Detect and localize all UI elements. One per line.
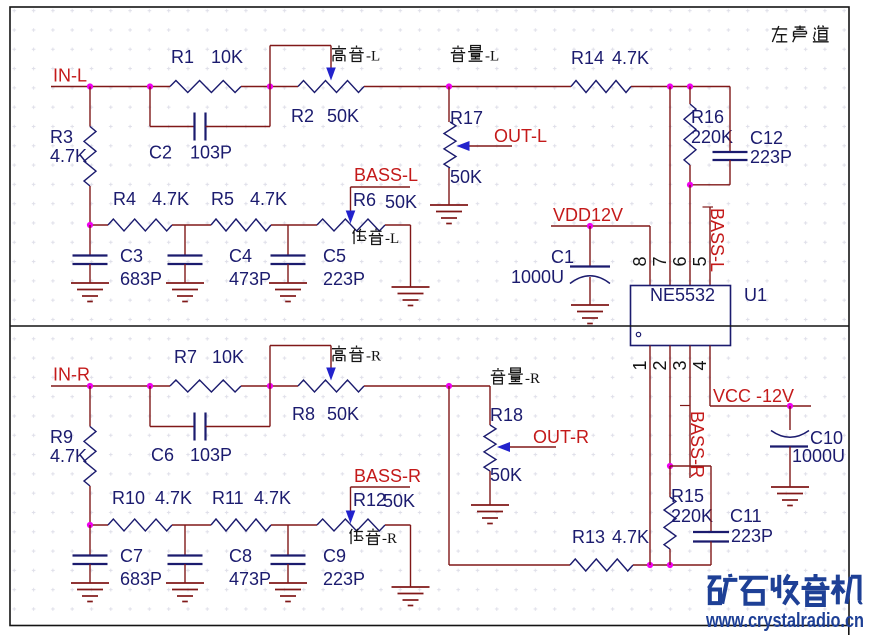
ground C5 [269, 283, 307, 302]
wire R4-R5 [172, 224, 211, 226]
svg-text:683P: 683P [120, 269, 162, 289]
svg-text:4.7K: 4.7K [612, 527, 649, 547]
svg-text:R14: R14 [571, 48, 604, 68]
svg-text:VCC -12V: VCC -12V [713, 386, 794, 406]
capacitor C3 [89, 225, 91, 255]
svg-text:C4: C4 [229, 246, 252, 266]
node VDD12V wire [551, 225, 650, 227]
svg-text:220K: 220K [671, 506, 713, 526]
capacitor C10 (polarized) [789, 406, 791, 430]
svg-text:8: 8 [630, 256, 650, 266]
capacitor C11 [670, 465, 711, 467]
wire bass row left [90, 224, 108, 226]
svg-text:BASS-R: BASS-R [687, 411, 707, 478]
ground C10 [771, 487, 809, 506]
node VCC-12V wire [709, 346, 711, 407]
pot R8 wiper arrow [326, 368, 336, 381]
capacitor C2 [149, 87, 151, 127]
wire R13 to C11 bottom [633, 564, 711, 566]
label left-channel (Chinese) 左声道 [772, 26, 787, 42]
svg-text:IN-R: IN-R [53, 365, 90, 385]
svg-text:C11: C11 [730, 506, 762, 526]
junction volume net [446, 83, 452, 89]
resistor R9 [89, 386, 91, 427]
wire pin5 stub BASS-L [709, 207, 711, 286]
ground R6 [392, 287, 430, 306]
ground C8 [166, 583, 204, 602]
resistor R5 [211, 219, 271, 231]
svg-text:50K: 50K [327, 106, 359, 126]
svg-text:R2: R2 [291, 106, 314, 126]
svg-text:R1: R1 [171, 47, 194, 67]
ground C3 [71, 283, 109, 302]
ground R18 [471, 505, 509, 524]
node BASS-R stub wire [351, 486, 411, 488]
svg-text:C5: C5 [323, 246, 346, 266]
svg-text:R8: R8 [292, 404, 315, 424]
svg-text:R6: R6 [353, 190, 376, 210]
pot R2 wiper arrow [326, 68, 336, 81]
resistor R1 [170, 81, 241, 93]
label bass-R (Chinese) [350, 529, 364, 544]
wire OUT-L [470, 145, 513, 147]
junction R16 top [687, 83, 693, 89]
wire R8 to R18 corner [364, 385, 490, 387]
svg-text:C6: C6 [151, 445, 174, 465]
net label tick pin3 [680, 405, 691, 407]
wire R10-R11 [172, 524, 211, 526]
resistor R4 [108, 219, 172, 231]
wire to ground R12 [410, 525, 412, 587]
resistor R11 [211, 519, 271, 531]
junction R16/C12 bottom (pin6) [687, 182, 693, 188]
wire to ground R6 [410, 225, 412, 287]
potentiometer R6 body [317, 219, 385, 231]
junction pin7 net [667, 83, 673, 89]
svg-text:683P: 683P [120, 569, 162, 589]
svg-text:C9: C9 [323, 546, 346, 566]
wire volume R down to R13 row [448, 386, 450, 565]
svg-text:IN-L: IN-L [53, 66, 87, 86]
wire pin2 down [669, 346, 671, 467]
wire R7 to R8 [241, 385, 298, 387]
svg-text:-L: -L [385, 231, 399, 247]
svg-text:4.7K: 4.7K [155, 488, 192, 508]
svg-text:C1: C1 [551, 247, 574, 267]
wire R11-R12 [271, 524, 317, 526]
resistor R3 [89, 87, 91, 127]
svg-text:103P: 103P [190, 445, 232, 465]
svg-text:4: 4 [690, 360, 710, 370]
potentiometer R17 volume [448, 87, 450, 123]
section divider line [10, 325, 849, 327]
wire pin3 stub BASS-R [689, 346, 691, 479]
wire R12 right [385, 524, 411, 526]
svg-text:6: 6 [670, 256, 690, 266]
resistor R15 [664, 497, 676, 549]
svg-text:C8: C8 [229, 546, 252, 566]
svg-text:OUT-L: OUT-L [494, 126, 547, 146]
ground C4 [166, 283, 204, 302]
svg-text:1000U: 1000U [511, 267, 564, 287]
potentiometer R2 body [298, 81, 364, 93]
ground C7 [71, 583, 109, 602]
pot R6 wiper arrow [346, 211, 356, 224]
pot R18 wiper arrow [497, 442, 510, 452]
pot R12 wiper arrow [346, 511, 356, 524]
junction R7 / C6 right / treble loop [267, 383, 273, 389]
U1 pin1 marker circle [636, 332, 640, 336]
svg-text:BASS-L: BASS-L [707, 208, 727, 272]
wire R14 to C12 corner [631, 86, 730, 88]
wire R5-R6 [271, 224, 317, 226]
capacitor C5 [287, 225, 289, 255]
label volume-R (Chinese) [491, 368, 505, 384]
watermark logo crystalradio (Chinese) [708, 574, 738, 604]
svg-text:4.7K: 4.7K [612, 48, 649, 68]
node BASS-L stub wire [351, 186, 411, 188]
svg-text:473P: 473P [229, 269, 271, 289]
svg-text:C2: C2 [149, 143, 172, 163]
junction volume net R [446, 383, 452, 389]
svg-text:223P: 223P [750, 147, 792, 167]
junction R15/C11 top (pin2) [667, 463, 673, 469]
svg-text:1: 1 [630, 360, 650, 370]
wire OUT-R [510, 446, 556, 448]
resistor R13 [570, 559, 633, 571]
svg-text:R7: R7 [174, 347, 197, 367]
svg-text:VDD12V: VDD12V [553, 205, 623, 225]
svg-text:-R: -R [382, 531, 397, 547]
svg-text:R17: R17 [450, 108, 483, 128]
resistor R14 [571, 81, 631, 93]
pot R17 wiper arrow [457, 141, 470, 151]
capacitor C8 [184, 525, 186, 555]
svg-text:5: 5 [690, 256, 710, 266]
op-amp U1 NE5532 [631, 286, 731, 346]
svg-text:-L: -L [366, 49, 380, 65]
svg-text:4.7K: 4.7K [250, 189, 287, 209]
svg-text:10K: 10K [212, 347, 244, 367]
svg-text:C10: C10 [810, 428, 843, 448]
ground R17 [430, 205, 468, 224]
svg-text:C12: C12 [750, 128, 783, 148]
label treble-R (Chinese) [332, 346, 346, 362]
svg-text:223P: 223P [323, 269, 365, 289]
wire R2 to R14 [364, 86, 571, 88]
svg-text:-L: -L [485, 49, 499, 65]
capacitor C9 [287, 525, 289, 555]
svg-text:10K: 10K [211, 47, 243, 67]
svg-text:1000U: 1000U [792, 446, 845, 466]
svg-text:U1: U1 [744, 285, 767, 305]
junction bass row / R3 / C3 [87, 222, 93, 228]
svg-text:4.7K: 4.7K [50, 146, 87, 166]
svg-text:C7: C7 [120, 546, 143, 566]
label bass-L (Chinese) [353, 229, 367, 244]
svg-text:4.7K: 4.7K [254, 488, 291, 508]
junction R1 / C2 right / treble loop [267, 83, 273, 89]
svg-text:BASS-L: BASS-L [354, 165, 418, 185]
junction R15 bottom [667, 562, 673, 568]
wire IN-L main row segment [51, 86, 170, 88]
svg-text:4.7K: 4.7K [50, 446, 87, 466]
svg-text:50K: 50K [383, 491, 415, 511]
svg-text:-R: -R [366, 349, 381, 365]
svg-text:50K: 50K [327, 404, 359, 424]
svg-text:4.7K: 4.7K [152, 189, 189, 209]
svg-text:R18: R18 [490, 405, 523, 425]
label volume-L (Chinese) [451, 46, 465, 62]
label treble-L (Chinese) [332, 46, 346, 62]
svg-text:220K: 220K [691, 127, 733, 147]
junction VDD12V / C1 [587, 223, 593, 229]
potentiometer R18 volume R [489, 386, 491, 425]
svg-text:C3: C3 [120, 246, 143, 266]
ground C1 [571, 305, 609, 324]
wire bass row left R [90, 524, 108, 526]
svg-text:www.crystalradio.cn: www.crystalradio.cn [705, 610, 864, 632]
ground R12 [392, 587, 430, 606]
wire IN-R main row segment [51, 385, 170, 387]
svg-text:7: 7 [650, 256, 670, 266]
wire pin6 [689, 185, 691, 286]
junction bass row / R9 / C7 [87, 522, 93, 528]
svg-text:OUT-R: OUT-R [533, 427, 589, 447]
resistor R7 [170, 380, 241, 392]
capacitor C4 [184, 225, 186, 255]
potentiometer R2 treble wiper loop wire [269, 46, 271, 87]
wire R1 to R2 [241, 86, 298, 88]
svg-text:50K: 50K [450, 167, 482, 187]
svg-text:3: 3 [670, 360, 690, 370]
wire pin1 down [649, 346, 651, 566]
svg-text:R4: R4 [113, 189, 136, 209]
svg-text:R13: R13 [572, 527, 605, 547]
svg-text:-R: -R [525, 371, 540, 387]
svg-text:NE5532: NE5532 [650, 285, 715, 305]
svg-text:R16: R16 [691, 107, 724, 127]
junction pin1 / R13 [647, 562, 653, 568]
svg-text:R9: R9 [50, 427, 73, 447]
junction VCC / C10 [787, 403, 793, 409]
potentiometer R12 body [317, 519, 385, 531]
svg-text:223P: 223P [731, 526, 773, 546]
sheet right border extension [848, 626, 850, 635]
svg-text:R15: R15 [671, 486, 704, 506]
junction R7 / C6 left [147, 383, 153, 389]
svg-text:50K: 50K [385, 192, 417, 212]
wire pin7 to main row [669, 87, 671, 286]
svg-text:473P: 473P [229, 569, 271, 589]
capacitor C6 [149, 386, 151, 427]
capacitor C1 (polarized) [589, 226, 591, 266]
svg-text:223P: 223P [323, 569, 365, 589]
svg-text:R10: R10 [112, 488, 145, 508]
svg-text:2: 2 [650, 360, 670, 370]
capacitor C12 [729, 87, 731, 152]
potentiometer R8 treble wiper loop wire [269, 346, 271, 387]
junction IN-L / R3 [87, 83, 93, 89]
svg-text:R5: R5 [211, 189, 234, 209]
junction R1 / C2 left [147, 83, 153, 89]
potentiometer R8 body [298, 380, 364, 392]
svg-text:R11: R11 [212, 488, 244, 508]
resistor R10 [108, 519, 172, 531]
net label tick pin5 [703, 206, 714, 208]
svg-text:103P: 103P [190, 143, 232, 163]
ground C9 [269, 583, 307, 602]
wire to R13 [449, 564, 570, 566]
svg-text:R12: R12 [353, 490, 386, 510]
svg-text:R3: R3 [50, 127, 73, 147]
resistor R16 [689, 87, 691, 105]
wire R6 right [385, 224, 411, 226]
svg-text:BASS-R: BASS-R [354, 466, 421, 486]
capacitor C7 [89, 525, 91, 555]
junction IN-R / R9 [87, 383, 93, 389]
svg-text:50K: 50K [490, 465, 522, 485]
